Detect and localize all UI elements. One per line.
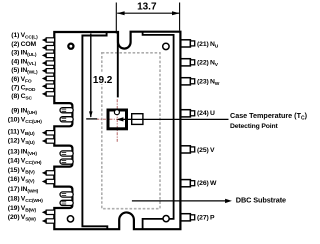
svg-text:13.7: 13.7 xyxy=(137,2,157,13)
svg-text:(27) P: (27) P xyxy=(197,215,215,222)
svg-text:(2) COM: (2) COM xyxy=(11,41,36,48)
svg-text:Case Temperature (TC): Case Temperature (TC) xyxy=(230,111,308,122)
svg-text:(25) V: (25) V xyxy=(197,147,215,154)
svg-text:(26) W: (26) W xyxy=(197,180,217,187)
svg-text:Detecting Point: Detecting Point xyxy=(230,123,278,130)
svg-text:(24) U: (24) U xyxy=(197,110,215,117)
svg-text:19.2: 19.2 xyxy=(93,75,113,86)
svg-text:DBC Substrate: DBC Substrate xyxy=(236,195,286,204)
